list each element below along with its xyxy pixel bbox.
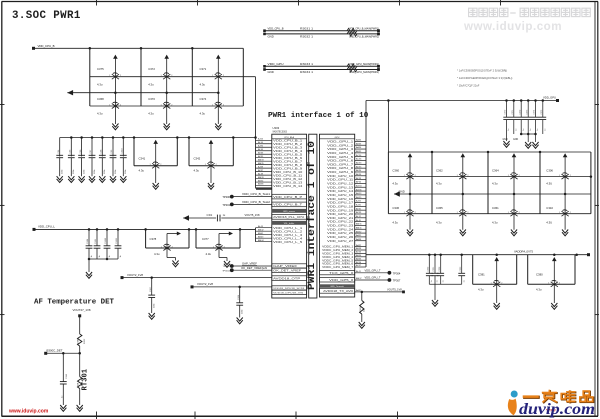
svg-text:4.3u: 4.3u (392, 181, 398, 185)
svg-text:AA36: AA36 (356, 146, 362, 149)
svg-text:VDD_CPU_B_MAIN(PWR1): VDD_CPU_B_MAIN(PWR1) (349, 27, 379, 31)
svg-text:VDD_GPU_8: VDD_GPU_8 (327, 168, 354, 170)
svg-text:C306: C306 (546, 169, 553, 173)
svg-text:100n: 100n (241, 309, 243, 314)
svg-text:TP3012: TP3012 (222, 270, 230, 272)
svg-text:U303: U303 (273, 126, 280, 130)
svg-text:R302: R302 (84, 338, 86, 344)
svg-text:VDD_GPU_21: VDD_GPU_21 (327, 218, 354, 220)
svg-text:VDD_GPU_27: VDD_GPU_27 (327, 241, 354, 243)
svg-text:C362: C362 (436, 169, 443, 173)
svg-text:4.3u: 4.3u (148, 112, 154, 116)
svg-text:C372: C372 (148, 67, 155, 71)
svg-text:AL43: AL43 (258, 225, 264, 228)
svg-text:VDD_CPU_B_13: VDD_CPU_B_13 (273, 182, 303, 184)
svg-text:VDD_GPU_17: VDD_GPU_17 (327, 203, 354, 205)
svg-text:1u: 1u (523, 129, 525, 131)
svg-text:VDD_CPU_L_5: VDD_CPU_L_5 (273, 242, 303, 244)
svg-text:4.3u: 4.3u (194, 168, 200, 172)
svg-text:AM39: AM39 (258, 176, 264, 179)
svg-text:VDD_GPU_24: VDD_GPU_24 (327, 229, 354, 231)
svg-text:AK37: AK37 (258, 169, 264, 172)
svg-text:VDD_CPU_B_10: VDD_CPU_B_10 (273, 172, 303, 174)
svg-text:AE34: AE34 (356, 169, 362, 172)
svg-text:100n: 100n (104, 169, 106, 174)
svg-text:VDD_GPU_26: VDD_GPU_26 (327, 237, 354, 239)
svg-text:VDD_CPU_B_7: VDD_CPU_B_7 (273, 161, 303, 163)
svg-text:VDDC_GPU_MEM_5: VDDC_GPU_MEM_5 (322, 260, 354, 262)
svg-text:VDD_GPU_15: VDD_GPU_15 (327, 195, 354, 197)
svg-text:VDD_GPU_4: VDD_GPU_4 (327, 153, 354, 155)
svg-text:AC36: AC36 (356, 158, 362, 161)
svg-text:AK39: AK39 (356, 211, 362, 214)
svg-text:R3034 1: R3034 1 (300, 71, 314, 74)
svg-text:VDD_GPU_9: VDD_GPU_9 (327, 172, 354, 174)
svg-text:VDD_GPU_MAIN(PWR1): VDD_GPU_MAIN(PWR1) (349, 62, 379, 66)
svg-text:C371: C371 (200, 67, 207, 71)
svg-text:1u: 1u (442, 280, 444, 282)
svg-text:R3033 1: R3033 1 (300, 63, 314, 66)
svg-text:VDDC_GPU_MEM_6: VDDC_GPU_MEM_6 (322, 264, 354, 266)
svg-text:AVDD18_PLL_CPU: AVDD18_PLL_CPU (273, 216, 304, 219)
svg-text:4.3u: 4.3u (148, 82, 154, 86)
svg-text:AL32: AL32 (356, 215, 362, 218)
svg-text:1u: 1u (99, 254, 101, 257)
svg-text:VDD_GPU: VDD_GPU (268, 62, 284, 66)
svg-text:AE36: AE36 (356, 173, 362, 176)
svg-text:100n: 100n (125, 169, 127, 174)
svg-text:R3031 1: R3031 1 (300, 28, 314, 31)
svg-text:VDD_CPU_B_11: VDD_CPU_B_11 (273, 175, 303, 177)
svg-text:AC34: AC34 (356, 154, 362, 157)
svg-text:VOUT2_1V8: VOUT2_1V8 (197, 282, 213, 286)
svg-text:AD33: AD33 (356, 162, 362, 165)
svg-text:R3032 1: R3032 1 (300, 35, 314, 38)
svg-text:4.3u: 4.3u (97, 82, 103, 86)
svg-text:1u: 1u (463, 280, 465, 282)
svg-text:AJ36: AJ36 (258, 144, 264, 147)
svg-text:VDD_GPU_25: VDD_GPU_25 (327, 233, 354, 235)
svg-text:AVDD18_TX_AVD: AVDD18_TX_AVD (323, 290, 354, 293)
svg-text:AK35: AK35 (258, 155, 264, 158)
svg-text:AF35: AF35 (356, 181, 362, 184)
svg-text:4.3u: 4.3u (200, 82, 206, 86)
svg-text:4.3u: 4.3u (206, 252, 212, 256)
svg-text:VDD_CPU_B_3: VDD_CPU_B_3 (273, 148, 303, 150)
svg-text:AJ38: AJ38 (258, 165, 264, 168)
svg-text:RT301: RT301 (82, 368, 90, 390)
svg-text:VDD_GPU_2: VDD_GPU_2 (327, 145, 354, 147)
svg-text:C318: C318 (87, 238, 89, 244)
svg-text:AL38: AL38 (258, 172, 264, 175)
svg-text:C330: C330 (66, 373, 68, 379)
svg-text:VDD_CPU_B_2: VDD_CPU_B_2 (273, 144, 303, 146)
svg-text:TP304: TP304 (393, 271, 401, 275)
svg-text:VDDC_GPU_MEM_4: VDDC_GPU_MEM_4 (322, 257, 354, 259)
svg-text:VDD_CPU_B_8: VDD_CPU_B_8 (273, 165, 303, 167)
svg-text:AA38: AA38 (356, 238, 362, 241)
svg-text:C336: C336 (392, 206, 399, 210)
svg-text:AM31: AM31 (356, 223, 362, 226)
svg-text:C341: C341 (139, 157, 146, 161)
svg-text:AF33: AF33 (356, 177, 362, 180)
svg-text:C381: C381 (478, 273, 485, 277)
svg-text:1u: 1u (223, 214, 226, 217)
svg-text:AN38: AN38 (258, 183, 264, 186)
svg-text:4.3u: 4.3u (97, 112, 103, 116)
svg-text:VDD_CPU_B_P: VDD_CPU_B_P (273, 197, 303, 199)
svg-text:4.3U: 4.3U (546, 221, 552, 225)
svg-text:4.3U: 4.3U (546, 181, 552, 185)
svg-text:4.3u: 4.3u (436, 181, 442, 185)
svg-text:100n: 100n (94, 169, 96, 174)
svg-text:AJ34: AJ34 (258, 138, 264, 141)
svg-text:GND: GND (513, 139, 518, 141)
svg-text:1u: 1u (120, 254, 122, 257)
svg-text:AB33: AB33 (356, 142, 362, 145)
svg-text:AN32: AN32 (356, 230, 362, 233)
svg-text:VDD_GPU_10: VDD_GPU_10 (327, 176, 354, 178)
svg-text:AK33: AK33 (258, 151, 264, 154)
svg-text:VDDC_GPU_MEM_3: VDDC_GPU_MEM_3 (322, 254, 354, 256)
svg-text:VDD_CPU_B: VDD_CPU_B (38, 44, 55, 48)
svg-text:C327: C327 (150, 286, 152, 292)
svg-text:VDD_CPU_B: VDD_CPU_B (268, 27, 284, 31)
svg-text:VDDC_GPU_MEM_1: VDDC_GPU_MEM_1 (322, 247, 354, 249)
svg-text:VDD_GPU_1: VDD_GPU_1 (327, 142, 354, 144)
svg-text:C365: C365 (436, 206, 443, 210)
svg-text:AB34: AB34 (356, 254, 362, 257)
svg-text:AB36: AB36 (356, 257, 362, 260)
svg-text:VDD_GPU_23: VDD_GPU_23 (327, 226, 354, 228)
svg-text:GND_sensor: GND_sensor (283, 210, 295, 213)
svg-text:100n: 100n (153, 303, 155, 308)
svg-text:10K: 10K (364, 308, 366, 312)
svg-text:C342: C342 (194, 157, 201, 161)
svg-text:1u: 1u (109, 254, 111, 257)
svg-text:AL36: AL36 (258, 148, 264, 151)
svg-text:VDD_CPU_L_3: VDD_CPU_L_3 (273, 235, 303, 237)
svg-text:VDD_CPU_B_6: VDD_CPU_B_6 (273, 158, 303, 160)
svg-text:AVDD18_OTP: AVDD18_OTP (273, 277, 301, 280)
svg-text:VDD_CPU_B_T: VDD_CPU_B_T (273, 205, 303, 207)
svg-text:1u: 1u (91, 254, 93, 257)
svg-text:VDD_GPU_6: VDD_GPU_6 (327, 161, 354, 163)
svg-text:VDD_GPU_22: VDD_GPU_22 (327, 222, 354, 224)
svg-text:1u: 1u (530, 129, 532, 131)
svg-text:AL41: AL41 (356, 270, 362, 273)
svg-text:* 1uF/C309GB3PGS(2/O7EvF 2 3(V: * 1uF/C309GB3PGS(2/O7EvF 2 3(Vj/CBRj) (457, 69, 507, 73)
svg-text:GAP_VREF: GAP_VREF (242, 262, 257, 266)
svg-text:4.3u: 4.3u (436, 221, 442, 225)
svg-text:4.3u: 4.3u (492, 221, 498, 225)
svg-text:C360: C360 (392, 169, 399, 173)
svg-text:C368: C368 (97, 97, 104, 101)
svg-text:VDD_GPU_13: VDD_GPU_13 (327, 187, 354, 189)
svg-text:VDD_GPU_16: VDD_GPU_16 (327, 199, 354, 201)
svg-text:VDD_GPU_20: VDD_GPU_20 (327, 214, 354, 216)
svg-text:943679C0003: 943679C0003 (273, 131, 288, 133)
svg-text:C328: C328 (238, 294, 240, 300)
svg-text:VDD_GPU_T: VDD_GPU_T (365, 268, 381, 272)
svg-text:duvip.com: duvip.com (519, 401, 595, 418)
svg-text:GND: GND (503, 139, 508, 141)
svg-text:GND_Termask: GND_Termask (330, 285, 345, 288)
svg-text:AM33: AM33 (258, 158, 264, 161)
svg-text:C374: C374 (200, 97, 207, 101)
svg-text:www.iduvip.com: www.iduvip.com (463, 20, 562, 33)
svg-text:4.3u: 4.3u (200, 112, 206, 116)
svg-text:1u: 1u (508, 129, 510, 131)
svg-text:AM35: AM35 (258, 162, 264, 165)
svg-text:AB35: AB35 (356, 150, 362, 153)
svg-text:VDD_GP5_0: VDD_GP5_0 (329, 280, 354, 282)
svg-text:100K: 100K (78, 338, 80, 344)
svg-text:1u: 1u (537, 129, 539, 131)
svg-text:VDD_GPU_3: VDD_GPU_3 (327, 149, 354, 151)
svg-text:C377: C377 (202, 237, 209, 241)
svg-text:VDD_CPU_B_Test2: VDD_CPU_B_Test2 (242, 200, 271, 204)
svg-text:AA34: AA34 (356, 139, 362, 142)
svg-text:1u: 1u (544, 129, 546, 131)
svg-text:VADDR4_0V75: VADDR4_0V75 (514, 249, 533, 253)
svg-text:AM37: AM37 (356, 277, 362, 280)
svg-text:PWR1 interface 1 of 10: PWR1 interface 1 of 10 (268, 112, 369, 120)
svg-text:TP301: TP301 (222, 203, 230, 207)
svg-text:AH33: AH33 (356, 192, 362, 195)
svg-text:GND: GND (268, 34, 274, 38)
svg-text:PWR1 interface 1 of 10: PWR1 interface 1 of 10 (306, 141, 318, 290)
svg-text:VDD_CPU_L_2: VDD_CPU_L_2 (273, 232, 303, 234)
svg-text:VDD_CPU_B_9: VDD_CPU_B_9 (273, 168, 303, 170)
svg-text:VDDC_GPU_MEM_2: VDDC_GPU_MEM_2 (322, 250, 354, 252)
svg-text:C380: C380 (536, 273, 543, 277)
svg-text:AV33: AV33 (356, 251, 362, 254)
svg-text:VOUT27_1V8: VOUT27_1V8 (73, 308, 91, 312)
svg-text:GND_GPU_MAIN(PWR1): GND_GPU_MAIN(PWR1) (349, 70, 379, 74)
svg-text:VOUT5_1V8: VOUT5_1V8 (245, 213, 261, 217)
svg-text:C361: C361 (492, 206, 499, 210)
svg-text:VDD_GPU_7: VDD_GPU_7 (327, 164, 354, 166)
svg-text:VDD_GPU_11: VDD_GPU_11 (327, 180, 354, 182)
svg-text:C375: C375 (97, 67, 104, 71)
svg-text:GPU: GPU (335, 137, 340, 139)
svg-text:B300C_DET: B300C_DET (47, 349, 63, 353)
svg-text:AM41: AM41 (356, 226, 362, 229)
svg-text:AN41: AN41 (258, 232, 264, 235)
svg-text:VDD_CPU_L_1: VDD_CPU_L_1 (273, 228, 303, 230)
svg-text:GND: GND (399, 190, 405, 194)
svg-text:AV37: AV37 (356, 264, 362, 267)
svg-text:AD35: AD35 (356, 165, 362, 168)
svg-text:VDD_GPU: VDD_GPU (543, 96, 556, 100)
svg-text:100n: 100n (73, 169, 75, 174)
svg-text:VDDC_GPU_MEM_7: VDDC_GPU_MEM_7 (322, 267, 354, 269)
svg-text:R303: R303 (360, 306, 362, 312)
svg-text:4.3u: 4.3u (478, 288, 484, 292)
svg-text:CPU_B1A: CPU_B1A (284, 136, 295, 139)
svg-text:VDD_GPU_14: VDD_GPU_14 (327, 191, 354, 193)
svg-text:4.3u: 4.3u (392, 221, 398, 225)
svg-text:VDD_CPU_B_14: VDD_CPU_B_14 (273, 186, 303, 188)
svg-text:OK_DET_VREF: OK_DET_VREF (273, 271, 302, 273)
svg-text:VDD_CPU_L_4: VDD_CPU_L_4 (273, 239, 303, 241)
svg-text:VDD_GPU_19: VDD_GPU_19 (327, 210, 354, 212)
svg-text:VDD_GPU_T: VDD_GPU_T (365, 276, 381, 280)
svg-text:VDD18_DPU18_IVS: VDD18_DPU18_IVS (273, 293, 304, 295)
svg-text:1u: 1u (431, 280, 433, 282)
svg-text:C370: C370 (148, 97, 155, 101)
svg-text:VDD_CPU_B_Test1: VDD_CPU_B_Test1 (242, 192, 271, 196)
svg-text:GAP_VREF: GAP_VREF (273, 265, 298, 268)
svg-text:VDD_CPU_L: VDD_CPU_L (38, 225, 55, 229)
svg-text:C319: C319 (95, 238, 97, 244)
svg-text:AL34: AL34 (258, 141, 264, 144)
svg-text:AJ32: AJ32 (356, 200, 362, 203)
svg-text:AV36: AV36 (356, 261, 362, 264)
svg-text:100n: 100n (62, 169, 64, 174)
svg-text:AN43: AN43 (258, 235, 264, 238)
svg-text:TP300: TP300 (222, 195, 230, 199)
svg-text:4.3u: 4.3u (536, 288, 542, 292)
svg-text:VDD_CPU_B_12: VDD_CPU_B_12 (273, 179, 303, 181)
svg-text:4.3u: 4.3u (139, 168, 145, 172)
svg-text:VDD_CPU_B_4: VDD_CPU_B_4 (273, 151, 303, 153)
svg-text:TP307: TP307 (393, 279, 401, 283)
svg-text:AM42: AM42 (258, 228, 264, 231)
svg-text:1u: 1u (437, 280, 439, 282)
svg-text:1u: 1u (515, 129, 517, 131)
svg-text:TP3011: TP3011 (223, 266, 231, 268)
svg-text:3.SOC PWR1: 3.SOC PWR1 (12, 10, 81, 22)
svg-text:C3110: C3110 (105, 237, 107, 244)
svg-text:AM44: AM44 (258, 239, 264, 242)
svg-text:* 1uF/C3DPGEDPWCEDj(2/O7EvF 3: * 1uF/C3DPGEDPWCEDj(2/O7EvF 3 3(Vj/EBLj) (457, 76, 512, 80)
svg-text:AG34: AG34 (356, 184, 362, 187)
svg-text:AN34: AN34 (258, 179, 264, 182)
svg-text:100n: 100n (115, 169, 117, 174)
svg-text:C378: C378 (150, 237, 157, 241)
svg-text:C310: C310 (122, 148, 124, 154)
svg-text:100n: 100n (83, 169, 85, 174)
svg-text:AJ40: AJ40 (356, 204, 362, 207)
svg-text:VDD_GPU_5: VDD_GPU_5 (327, 157, 354, 159)
svg-text:AG36: AG36 (356, 188, 362, 191)
svg-text:C3111: C3111 (116, 237, 118, 244)
svg-text:AH35: AH35 (356, 196, 362, 199)
svg-text:AB38: AB38 (356, 247, 362, 250)
svg-text:VOUT5_1V8: VOUT5_1V8 (387, 287, 402, 291)
svg-text:GND: GND (268, 70, 274, 74)
svg-text:VOUT2_1V8: VOUT2_1V8 (127, 273, 143, 277)
svg-text:VDD_GPU_12: VDD_GPU_12 (327, 184, 354, 186)
svg-text:AF Temperature DET: AF Temperature DET (34, 298, 115, 306)
svg-text:VDD_CPU_B_1: VDD_CPU_B_1 (273, 141, 303, 143)
svg-text:VDD_CPU_B_5: VDD_CPU_B_5 (273, 155, 303, 157)
svg-text:GND_CPU_B_MAIN(PWR1): GND_CPU_B_MAIN(PWR1) (349, 34, 379, 38)
svg-text:4.3u: 4.3u (492, 181, 498, 185)
svg-text:AA32: AA32 (356, 244, 362, 247)
svg-text:VDD18_DPU18_SC18: VDD18_DPU18_SC18 (273, 288, 305, 290)
svg-text:C302: C302 (207, 214, 213, 217)
svg-text:4.3u: 4.3u (154, 252, 160, 256)
svg-text:TCX_GP5_0: TCX_GP5_0 (329, 273, 354, 275)
svg-text:C310: C310 (546, 206, 553, 210)
svg-text:www.iduvip.com: www.iduvip.com (8, 408, 49, 414)
svg-text:C364: C364 (492, 169, 499, 173)
svg-text:10K: 10K (78, 382, 80, 386)
svg-text:AK31: AK31 (356, 207, 362, 210)
svg-text:* 15uF/C7CjF 22uF: * 15uF/C7CjF 22uF (457, 84, 480, 88)
svg-text:AA35: AA35 (356, 234, 362, 237)
svg-text:OK_DET_VREF(whl: OK_DET_VREF(whl (241, 266, 267, 270)
svg-text:VDD_GPU_18: VDD_GPU_18 (327, 206, 354, 208)
svg-text:AL40: AL40 (356, 219, 362, 222)
svg-text:VDL_buffer: VDL_buffer (284, 222, 295, 225)
